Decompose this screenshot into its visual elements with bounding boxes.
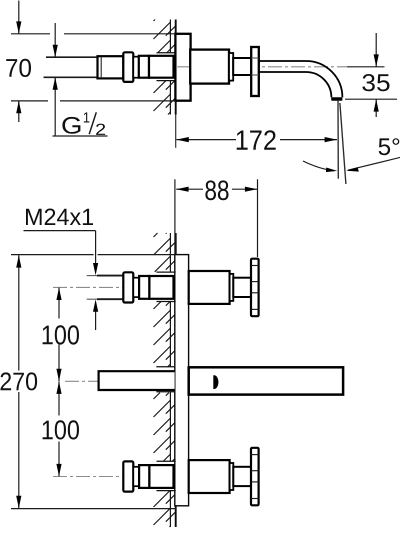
thread root line, top view xyxy=(100,57,102,77)
neck xyxy=(133,467,139,486)
dimension 35 xyxy=(345,33,397,117)
top valve centerline xyxy=(53,286,123,288)
spout centerline stub xyxy=(65,380,98,382)
label M24x1 xyxy=(26,209,93,226)
wall hatching below valve, top view xyxy=(154,81,176,115)
cartridge cylinder xyxy=(189,460,230,493)
wall hole edges xyxy=(157,460,176,462)
spout stem xyxy=(233,58,251,75)
dimension 70 xyxy=(11,1,176,123)
neck, top view xyxy=(133,57,139,78)
angle 5 deg xyxy=(303,161,334,171)
handle xyxy=(251,448,259,506)
valve in-wall block, top view xyxy=(149,56,174,78)
wall inner line, bottom view xyxy=(169,233,171,527)
mounting plate xyxy=(175,255,189,506)
bottom valve centerline xyxy=(53,476,123,478)
spout tube outer wall xyxy=(259,61,343,97)
spout disc xyxy=(251,47,259,96)
wall face extension for 172 dim xyxy=(175,115,177,148)
spout mouth aerator xyxy=(331,97,342,101)
dimension 100 lower xyxy=(58,382,60,477)
handle xyxy=(251,259,259,317)
dimension 172 xyxy=(176,139,337,141)
in-wall block xyxy=(149,465,173,488)
in-wall block xyxy=(149,276,173,299)
wall hatching, bottom view xyxy=(154,233,176,272)
cartridge step xyxy=(230,463,234,490)
valve M24 pipe xyxy=(97,276,123,300)
spout bar xyxy=(189,367,343,394)
wall face line, top view xyxy=(175,20,177,34)
front block xyxy=(139,465,149,488)
wall hole edges xyxy=(157,271,176,273)
dimension 100 upper xyxy=(58,288,60,382)
water stream xyxy=(337,101,339,179)
spout step ring xyxy=(229,53,233,81)
collar xyxy=(123,461,133,491)
thread section, top view xyxy=(98,56,124,78)
spout base cylinder xyxy=(190,50,229,84)
collar xyxy=(123,272,133,302)
cartridge cylinder xyxy=(189,271,230,304)
cartridge step xyxy=(230,274,234,301)
wall inner line, top view xyxy=(169,20,171,53)
dimension 270 xyxy=(11,255,176,509)
rosette escutcheon, top view xyxy=(175,34,190,101)
spout detail mark xyxy=(213,375,218,389)
wall face line, bottom view xyxy=(175,233,177,527)
valve stem xyxy=(233,467,251,486)
supply pipe G1/2, top view xyxy=(44,57,98,77)
wall hole edges, top view xyxy=(157,52,176,54)
collar nut, top view xyxy=(123,52,133,82)
neck xyxy=(133,278,139,297)
spout tube inner wall xyxy=(259,72,332,97)
thread label G 1/2 xyxy=(53,23,108,136)
valve stem xyxy=(233,278,251,297)
dimension 88 xyxy=(175,179,258,257)
stem lines across disc xyxy=(251,57,259,59)
front block xyxy=(139,276,149,299)
valve front block, top view xyxy=(139,56,149,78)
spout wall hole edges xyxy=(156,366,175,368)
wall hatching above valve, top view xyxy=(154,20,176,53)
centerline, top view xyxy=(176,66,347,68)
